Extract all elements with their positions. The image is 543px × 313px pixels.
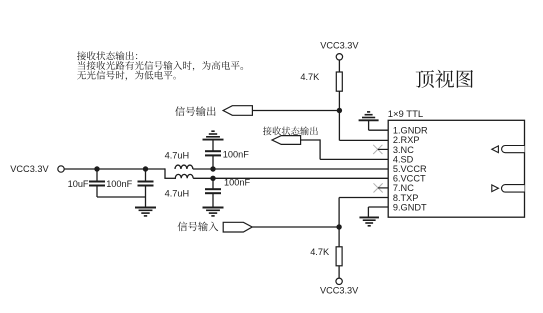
wire R2 to VCC xyxy=(338,266,340,278)
wire pin 9 to ground xyxy=(368,207,388,217)
pin label 7.NC xyxy=(393,183,414,193)
svg-text:4.7uH: 4.7uH xyxy=(165,188,190,198)
svg-text:4.7K: 4.7K xyxy=(300,72,320,82)
terminal (bottom VCC3.3V) xyxy=(336,278,342,284)
port symbol 信号输入 (arrow right) xyxy=(223,222,252,232)
svg-text:100nF: 100nF xyxy=(223,149,249,159)
ground (pin 9 GNDT) xyxy=(359,217,379,225)
pin label 5.VCCR xyxy=(393,164,427,174)
value label 100nF (C4) xyxy=(224,178,250,188)
value label 4.7uH (L2) xyxy=(165,188,190,198)
svg-text:3.NC: 3.NC xyxy=(393,145,414,155)
pin label 1.GNDR xyxy=(393,126,428,136)
node junction RXP/R1 xyxy=(337,108,342,113)
svg-text:9.GNDT: 9.GNDT xyxy=(393,202,427,212)
wire R1 to pin 2 xyxy=(339,91,388,140)
wire VCCR rail to pin 5 xyxy=(193,168,388,170)
resistor R2 4.7K xyxy=(336,247,342,266)
annotation text line 3 无光信号时，为低电平。 xyxy=(77,71,176,81)
svg-text:1×9 TTL: 1×9 TTL xyxy=(388,109,423,120)
svg-text:VCC3.3V: VCC3.3V xyxy=(10,164,49,174)
title 顶视图 (top view) xyxy=(416,70,473,88)
svg-text:8.TXP: 8.TXP xyxy=(393,193,419,203)
optical port TX (bottom capsule) xyxy=(501,185,524,193)
node junction TXP/R2 xyxy=(336,224,341,229)
node junction at C2 xyxy=(143,166,148,171)
wire fork to L2 xyxy=(164,168,176,178)
wire junction to R2 xyxy=(338,227,340,247)
pin 3 NC stub with X xyxy=(373,145,388,154)
terminal (top VCC3.3V) xyxy=(336,54,342,60)
wire pin 8 to junction xyxy=(339,198,388,228)
svg-text:7.NC: 7.NC xyxy=(393,183,414,193)
module U1 box (1x9 TTL transceiver) xyxy=(388,120,524,217)
ground (below C4) xyxy=(203,208,224,216)
node junction at C4 xyxy=(210,176,215,181)
arrow RX (triangle left) xyxy=(492,146,499,153)
arrow TX (triangle right) xyxy=(492,185,499,192)
port label 接收状态输出 xyxy=(263,127,318,136)
wire C1 bottom to C2 bottom xyxy=(97,196,146,198)
capacitor C4 100nF xyxy=(205,178,221,207)
pin label 9.GNDT xyxy=(393,202,427,212)
module label 1×9 TTL xyxy=(388,109,423,120)
port label 信号输入 xyxy=(178,222,219,232)
svg-text:100nF: 100nF xyxy=(106,179,132,189)
annotation text line 2 当接收光路有光信号输入时，为高电平。 xyxy=(78,61,243,71)
node junction at C1 xyxy=(94,166,99,171)
net label VCC3.3V (left) xyxy=(10,164,49,174)
ground (pin 1 GNDR, inverted) xyxy=(359,112,379,120)
wire VCC to R1 xyxy=(338,60,340,72)
svg-text:2.RXP: 2.RXP xyxy=(393,135,420,145)
node junction at C3 xyxy=(210,166,215,171)
wire VCC rail xyxy=(64,168,165,170)
capacitor C1 10uF xyxy=(89,169,105,197)
value label 4.7K (R2) xyxy=(310,247,330,257)
svg-text:4.7K: 4.7K xyxy=(310,247,330,257)
pin label 4.SD xyxy=(393,154,414,164)
wire VCCT rail to pin 6 xyxy=(193,177,388,179)
pin label 8.TXP xyxy=(393,193,419,203)
wire SD to pin 4 xyxy=(301,139,389,159)
value label 100nF (C2) xyxy=(106,179,132,189)
inductor L2 4.7uH xyxy=(175,174,193,178)
wire pin 1 to ground xyxy=(369,120,389,130)
inductor L1 4.7uH xyxy=(175,165,193,169)
capacitor C3 100nF xyxy=(205,140,221,169)
pin 7 NC stub with X xyxy=(374,183,389,192)
wire RXP from port xyxy=(252,110,339,112)
value label 10uF xyxy=(68,179,89,189)
port symbol 信号输出 (arrow left) xyxy=(223,106,252,116)
annotation text line 1 接收状态输出： xyxy=(77,51,137,60)
optical port RX (top capsule) xyxy=(502,146,525,153)
svg-text:6.VCCT: 6.VCCT xyxy=(393,174,426,184)
svg-text:4.7uH: 4.7uH xyxy=(165,150,190,160)
port label 信号输出 xyxy=(175,106,216,116)
svg-text:5.VCCR: 5.VCCR xyxy=(393,164,427,174)
net label VCC3.3V (top) xyxy=(320,40,359,50)
value label 4.7uH (L1) xyxy=(165,150,190,160)
pin label 6.VCCT xyxy=(393,174,426,184)
port symbol 接收状态输出 (arrow left) xyxy=(272,136,301,145)
svg-text:4.SD: 4.SD xyxy=(393,154,414,164)
terminal (left VCC3.3V) xyxy=(58,166,64,172)
resistor R1 4.7K xyxy=(336,72,342,91)
wire TXP from port xyxy=(252,226,339,228)
svg-text:100nF: 100nF xyxy=(224,178,250,188)
svg-text:VCC3.3V: VCC3.3V xyxy=(320,40,359,50)
ground (above C3, inverted) xyxy=(203,131,224,139)
net label VCC3.3V (bottom) xyxy=(320,285,359,295)
svg-text:10uF: 10uF xyxy=(68,179,89,189)
pin label 2.RXP xyxy=(393,135,420,145)
ground (below C2) xyxy=(135,208,156,216)
capacitor C2 100nF xyxy=(138,169,154,208)
value label 4.7K (R1) xyxy=(300,72,320,82)
pin label 3.NC xyxy=(393,145,414,155)
value label 100nF (C3) xyxy=(223,149,249,159)
svg-text:1.GNDR: 1.GNDR xyxy=(393,126,428,136)
svg-text:VCC3.3V: VCC3.3V xyxy=(320,285,359,295)
